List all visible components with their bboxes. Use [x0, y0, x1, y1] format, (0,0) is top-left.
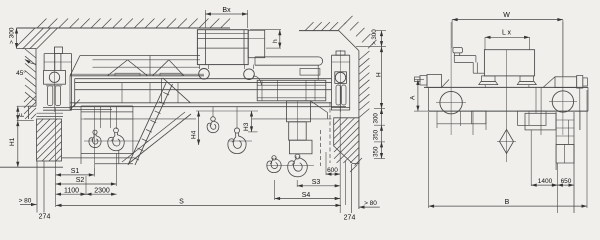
- dimension 650: [557, 178, 574, 187]
- svg-text:300: 300: [373, 113, 380, 124]
- dimension S4: [275, 180, 341, 200]
- girder stiffeners: [122, 83, 178, 103]
- right end carriage frame: [331, 51, 350, 110]
- svg-text:H: H: [376, 72, 383, 77]
- dimension 1400: [531, 130, 557, 213]
- dimension Bx: [205, 7, 247, 28]
- svg-text:A: A: [410, 95, 417, 100]
- lower platform lines: [62, 153, 134, 163]
- svg-text:274: 274: [344, 215, 356, 222]
- walkway floor line: [70, 74, 204, 76]
- dimension F: [16, 106, 34, 120]
- walkway left end support: [70, 76, 112, 110]
- dimension S2: [56, 153, 117, 186]
- right end carriage wheel: [335, 50, 347, 112]
- crab lower frame: [257, 80, 327, 119]
- right wall chamfer: [339, 16, 377, 51]
- gusset under walkway: [162, 78, 191, 103]
- svg-text:F: F: [19, 113, 26, 117]
- runway rail seat left: [37, 113, 64, 116]
- platform line under girder right: [252, 118, 332, 120]
- left wall corner chamfer + hatch: [16, 28, 58, 107]
- svg-text:L x: L x: [502, 30, 512, 37]
- trolley wheel right: [244, 65, 255, 80]
- mid aux hook: [207, 117, 219, 133]
- ceiling left (hatched): [17, 19, 231, 29]
- rail centreline left: [55, 108, 57, 207]
- hook centreline mid: [228, 140, 252, 142]
- ladder (end view): [556, 88, 580, 213]
- svg-text:h: h: [272, 39, 279, 43]
- end view wheel left: [436, 22, 466, 135]
- hoist body (end view): [479, 50, 541, 114]
- svg-text:650: 650: [561, 178, 572, 185]
- left corbel step: [24, 96, 36, 119]
- dimension H: [376, 47, 384, 109]
- ceiling right (hatched): [299, 22, 346, 31]
- dimension h: [250, 30, 281, 48]
- svg-text:45°: 45°: [16, 69, 26, 77]
- phantom crab at left limit: [81, 106, 133, 175]
- dimension >80 left: [19, 198, 37, 207]
- dimension 1100: [56, 176, 87, 196]
- svg-text:350: 350: [373, 146, 380, 157]
- dimension chain 300/350/350: [373, 109, 386, 159]
- svg-text:S: S: [179, 199, 184, 206]
- left end carriage frame: [43, 47, 72, 110]
- right wall face: [359, 51, 370, 209]
- svg-text:Bx: Bx: [222, 7, 231, 14]
- end view wheel right: [549, 22, 577, 135]
- wall lines below left column: [37, 161, 44, 213]
- left runway column (hatched): [37, 119, 62, 161]
- dimension >80 right: [359, 200, 380, 209]
- left end carriage wheel: [44, 47, 66, 112]
- svg-text:B: B: [505, 199, 510, 206]
- limit-switch bracket (end view): [453, 48, 484, 74]
- svg-text:S4: S4: [302, 192, 311, 199]
- svg-text:S3: S3: [312, 179, 321, 186]
- svg-text:H1: H1: [9, 137, 16, 146]
- svg-text:> 80: > 80: [19, 198, 32, 205]
- svg-text:S2: S2: [76, 177, 85, 184]
- svg-text:S1: S1: [71, 168, 80, 175]
- svg-text:274: 274: [39, 214, 51, 221]
- svg-text:H4: H4: [191, 130, 198, 139]
- trolley cross-travel bracket: [253, 76, 262, 85]
- dimension B: [429, 90, 587, 208]
- dimension A: [410, 80, 431, 112]
- svg-text:H3: H3: [243, 122, 250, 131]
- svg-text:350: 350: [373, 129, 380, 140]
- walkway railing: [70, 56, 200, 76]
- dimension H3: [243, 111, 258, 132]
- dimension S3: [297, 179, 340, 187]
- main hook lower: [288, 154, 308, 177]
- svg-text:1100: 1100: [64, 187, 79, 194]
- stairway: [119, 83, 191, 165]
- svg-text:> 300: > 300: [371, 29, 378, 45]
- trolley wheel left: [199, 65, 210, 80]
- svg-text:> 80: > 80: [364, 200, 377, 207]
- hoist drum: [255, 57, 323, 80]
- mid hook hangers: [213, 107, 237, 129]
- svg-text:2300: 2300: [94, 187, 110, 194]
- hook block housing: [287, 101, 313, 154]
- right runway column (hatched): [334, 118, 362, 172]
- mid main hook: [228, 128, 246, 154]
- 45 deg angle annotation: [16, 59, 36, 77]
- aux hook lower: [267, 156, 281, 173]
- dimension Lx: [485, 30, 530, 51]
- hook centreline lower: [267, 165, 314, 167]
- wall lines below right column: [346, 161, 352, 213]
- right guide rollers: [336, 85, 346, 105]
- end view frame band: [424, 87, 588, 111]
- hook centreline left: [84, 140, 140, 142]
- floor line left: [0, 166, 63, 168]
- dimension S1: [56, 168, 95, 177]
- dimension 2300: [86, 187, 117, 196]
- dimension H1: [9, 121, 19, 168]
- end view right buffer: [543, 75, 587, 88]
- main girder box: [70, 79, 346, 107]
- svg-text:W: W: [503, 12, 510, 19]
- dimension 600: [326, 152, 340, 176]
- trolley frame: [197, 30, 264, 65]
- hook symbol (end view): [497, 76, 516, 162]
- dimension W: [452, 12, 563, 76]
- left aux hook (phantom): [89, 130, 101, 147]
- svg-text:600: 600: [327, 167, 338, 174]
- rail centreline right: [339, 85, 341, 213]
- left main hook (phantom): [108, 128, 124, 151]
- dimension >300 right: [356, 29, 386, 47]
- svg-text:1400: 1400: [538, 178, 553, 185]
- left end carriage guide rollers: [46, 86, 62, 106]
- dimension S: [56, 199, 341, 208]
- platform line under girder left: [84, 118, 196, 120]
- dimension >300 left: [9, 27, 19, 48]
- rope drum (end view right): [525, 87, 556, 130]
- phantom travel dashed lines: [321, 102, 331, 166]
- end view left buffer: [415, 75, 450, 88]
- boxes under frame: [437, 111, 580, 135]
- svg-text:> 300: > 300: [9, 27, 16, 44]
- dimension H4: [191, 111, 259, 145]
